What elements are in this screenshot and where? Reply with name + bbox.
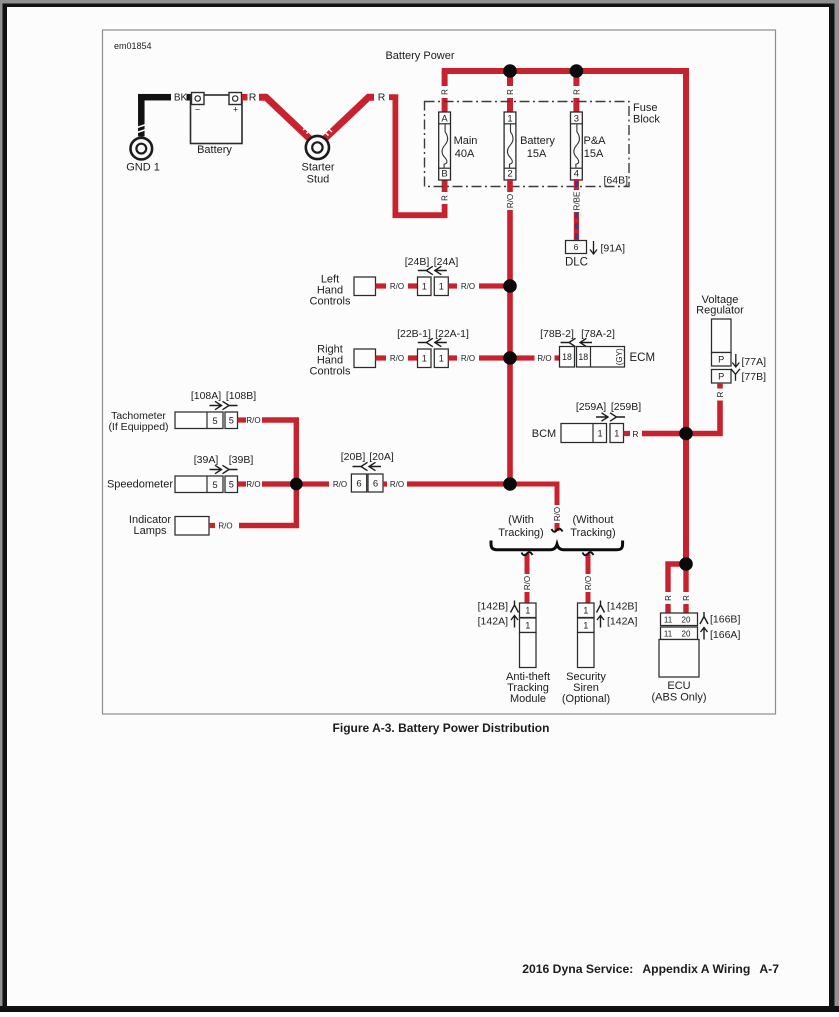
connector pair [108A] [108B] xyxy=(191,390,256,429)
svg-text:20: 20 xyxy=(682,630,691,639)
svg-text:Starter: Starter xyxy=(301,162,334,174)
wire R battery to starter stud xyxy=(242,92,313,139)
connector pair [78B-2] [78A-2] ECM xyxy=(540,328,655,367)
svg-text:R/O: R/O xyxy=(390,480,404,489)
BCM xyxy=(532,424,607,443)
svg-text:A: A xyxy=(441,113,448,124)
left hand controls xyxy=(310,274,376,308)
svg-text:Tracking): Tracking) xyxy=(498,527,543,539)
svg-text:1: 1 xyxy=(422,354,427,364)
svg-text:6: 6 xyxy=(356,478,361,489)
svg-text:20: 20 xyxy=(682,616,691,625)
svg-text:[22B-1]: [22B-1] xyxy=(397,328,431,340)
fuse F2 Battery 15A xyxy=(504,112,555,180)
svg-text:R: R xyxy=(378,92,386,104)
svg-text:R/O: R/O xyxy=(584,576,593,590)
junction speedometer column xyxy=(290,478,303,491)
wire R/O connector 20 to main junction xyxy=(383,479,510,489)
svg-text:R/O: R/O xyxy=(461,354,475,363)
svg-text:BCM: BCM xyxy=(532,428,556,440)
wire R BCM to junction xyxy=(624,429,687,439)
svg-text:1: 1 xyxy=(583,621,588,631)
connector [142B] anti-theft xyxy=(478,601,536,618)
svg-text:R: R xyxy=(440,195,449,201)
connector [142A] security siren xyxy=(578,616,638,633)
connector [142A] anti-theft xyxy=(478,616,536,633)
wire R/O indicator lamps up to junction xyxy=(209,484,296,531)
junction BCM voltage regulator xyxy=(679,427,693,441)
wire battery power bus xyxy=(439,68,689,113)
svg-text:R: R xyxy=(716,391,725,397)
node (Without Tracking) xyxy=(570,514,615,539)
svg-text:[259A]: [259A] xyxy=(576,401,606,413)
svg-text:[78B-2]: [78B-2] xyxy=(540,328,574,340)
svg-text:B: B xyxy=(441,169,447,180)
svg-text:4: 4 xyxy=(574,169,579,180)
connector [142B] security siren xyxy=(578,601,638,618)
anti-theft tracking module xyxy=(506,633,550,706)
svg-text:1: 1 xyxy=(525,621,530,631)
wire R/O LH controls to connector xyxy=(376,281,418,291)
security siren xyxy=(562,633,610,706)
connector [166B] ECU xyxy=(661,612,741,626)
svg-text:Battery Power: Battery Power xyxy=(385,50,454,62)
svg-text:3: 3 xyxy=(574,113,579,124)
svg-text:(With: (With xyxy=(508,514,534,526)
svg-text:6: 6 xyxy=(373,478,378,489)
drawing id em01854 xyxy=(114,41,152,51)
connector [91A] DLC xyxy=(565,241,625,269)
svg-text:[24B]: [24B] xyxy=(405,256,430,268)
fuse F1 Main 40A xyxy=(439,112,478,180)
right hand controls xyxy=(310,344,376,378)
svg-text:15A: 15A xyxy=(527,148,547,160)
wire R/O battery fuse main vertical xyxy=(505,179,516,484)
junction RH row xyxy=(503,351,517,365)
svg-text:+: + xyxy=(233,105,238,115)
svg-text:1: 1 xyxy=(583,606,588,616)
svg-text:R: R xyxy=(632,429,638,439)
svg-text:(Without: (Without xyxy=(573,514,614,526)
svg-text:5: 5 xyxy=(212,416,217,426)
svg-text:R/BE: R/BE xyxy=(572,192,581,211)
wire R/O tachometer to speedometer junction xyxy=(238,416,297,484)
svg-text:40A: 40A xyxy=(455,148,475,160)
svg-text:1: 1 xyxy=(439,282,444,292)
svg-text:Speedometer: Speedometer xyxy=(107,479,173,491)
svg-text:R/O: R/O xyxy=(246,480,260,489)
connector pair [39A] [39B] xyxy=(194,454,254,493)
svg-text:P: P xyxy=(718,372,724,382)
connector [166A] ECU xyxy=(661,627,741,641)
wire R ECU pin 20 xyxy=(681,567,692,613)
connector pair [259A] [259B] xyxy=(576,401,641,443)
svg-text:[22A-1]: [22A-1] xyxy=(435,328,469,340)
svg-text:1: 1 xyxy=(525,606,530,616)
wire R starter stud to main fuse xyxy=(323,92,451,216)
svg-text:R: R xyxy=(682,595,691,601)
svg-text:DLC: DLC xyxy=(565,257,588,269)
footer page label xyxy=(522,962,779,976)
connector [77B] xyxy=(712,369,767,383)
wire R/O anti-theft tracking module xyxy=(522,552,533,603)
fuse F3 P&A 15A xyxy=(571,112,607,180)
svg-text:(Optional): (Optional) xyxy=(562,693,610,705)
node (With Tracking) xyxy=(498,514,543,539)
svg-text:P&A: P&A xyxy=(583,135,606,147)
svg-text:Controls: Controls xyxy=(310,296,351,308)
junction main R/O line speedometer row xyxy=(503,477,517,491)
svg-text:1: 1 xyxy=(597,429,602,439)
svg-text:Controls: Controls xyxy=(310,366,351,378)
svg-text:5: 5 xyxy=(212,480,217,490)
svg-text:[77B]: [77B] xyxy=(742,371,767,383)
svg-text:R/O: R/O xyxy=(333,480,347,489)
junction LH row xyxy=(503,279,517,293)
battery xyxy=(191,93,243,157)
ECU module xyxy=(651,640,706,704)
svg-text:R/O: R/O xyxy=(506,194,515,208)
svg-text:(ABS Only): (ABS Only) xyxy=(651,692,706,704)
junction ECU feed xyxy=(679,557,693,571)
wire R/O junction to connector 20 xyxy=(296,479,351,489)
svg-text:[24A]: [24A] xyxy=(434,256,459,268)
svg-text:[20A]: [20A] xyxy=(369,451,394,463)
svg-text:5: 5 xyxy=(229,480,234,490)
junction bus-battery fuse xyxy=(503,64,517,78)
wire R voltage regulator to junction xyxy=(686,383,726,434)
svg-text:[142B]: [142B] xyxy=(478,601,508,613)
fuse block [64B] xyxy=(425,102,661,187)
svg-text:[166B]: [166B] xyxy=(710,614,740,626)
node Battery Power xyxy=(385,50,454,62)
figure caption xyxy=(333,721,550,735)
svg-text:R/O: R/O xyxy=(390,282,404,291)
svg-text:Block: Block xyxy=(633,114,660,126)
svg-text:R/O: R/O xyxy=(218,522,232,531)
svg-text:1: 1 xyxy=(422,282,427,292)
junction bus-P&A fuse xyxy=(570,64,584,78)
svg-text:Tracking): Tracking) xyxy=(570,527,615,539)
svg-text:Fuse: Fuse xyxy=(633,102,657,114)
svg-text:2: 2 xyxy=(507,169,512,180)
svg-text:[166A]: [166A] xyxy=(710,629,740,641)
connector pair [20B] [20A] xyxy=(341,451,394,492)
wire R right main vertical xyxy=(683,71,689,564)
svg-text:em01854: em01854 xyxy=(114,41,152,51)
svg-text:[108A]: [108A] xyxy=(191,390,221,402)
svg-text:[142B]: [142B] xyxy=(607,601,637,613)
svg-text:[142A]: [142A] xyxy=(478,616,508,628)
svg-text:11: 11 xyxy=(664,630,673,639)
svg-text:[77A]: [77A] xyxy=(742,356,767,368)
svg-text:1: 1 xyxy=(614,428,619,438)
svg-text:5: 5 xyxy=(229,416,234,426)
svg-text:Module: Module xyxy=(510,693,546,705)
svg-text:R/O: R/O xyxy=(553,507,562,521)
indicator lamps xyxy=(129,514,209,537)
wire R/O RH controls to connector xyxy=(376,353,418,363)
svg-text:15A: 15A xyxy=(584,148,604,160)
starter stud ring terminal xyxy=(301,136,334,186)
svg-text:R/O: R/O xyxy=(461,282,475,291)
svg-text:R: R xyxy=(664,595,673,601)
wire R/O security siren xyxy=(583,552,594,603)
svg-text:Main: Main xyxy=(454,135,478,147)
tachometer xyxy=(108,410,223,433)
svg-text:[142A]: [142A] xyxy=(607,616,637,628)
svg-text:6: 6 xyxy=(574,242,579,252)
connector pair [24B] [24A] xyxy=(405,256,459,296)
svg-text:[64B]: [64B] xyxy=(603,175,628,187)
ground ring terminal GND 1 xyxy=(126,138,160,174)
svg-text:[91A]: [91A] xyxy=(601,243,626,255)
svg-text:11: 11 xyxy=(664,616,673,625)
wire R/O junction to ECM xyxy=(510,353,560,363)
wire R ECU pin 11 xyxy=(663,564,687,613)
svg-text:1: 1 xyxy=(439,354,444,364)
wire R/O speedometer to junction xyxy=(238,480,297,489)
svg-text:[259B]: [259B] xyxy=(611,401,641,413)
svg-text:R/O: R/O xyxy=(390,354,404,363)
connector [77A] xyxy=(712,353,767,369)
svg-text:Battery: Battery xyxy=(520,135,555,147)
connector pair [22B-1] [22A-1] xyxy=(397,328,469,368)
svg-text:Stud: Stud xyxy=(307,174,330,186)
svg-text:Battery: Battery xyxy=(197,144,232,156)
svg-text:R: R xyxy=(249,92,257,104)
wire R/O connector to bus junction xyxy=(448,281,510,291)
svg-text:18: 18 xyxy=(578,352,588,362)
svg-text:P: P xyxy=(718,355,724,365)
svg-text:BK: BK xyxy=(174,93,188,104)
svg-text:R: R xyxy=(572,89,581,95)
svg-text:[39B]: [39B] xyxy=(229,454,254,466)
svg-text:[20B]: [20B] xyxy=(341,451,366,463)
svg-text:ECU: ECU xyxy=(667,680,690,692)
svg-text:Regulator: Regulator xyxy=(696,305,744,317)
wire R/O to tracking modules xyxy=(510,484,563,532)
svg-text:Lamps: Lamps xyxy=(133,525,167,537)
svg-text:18: 18 xyxy=(562,352,572,362)
svg-text:[39A]: [39A] xyxy=(194,454,219,466)
svg-text:GND 1: GND 1 xyxy=(126,162,160,174)
svg-text:−: − xyxy=(195,105,200,115)
svg-text:R/O: R/O xyxy=(523,576,532,590)
svg-text:R/O: R/O xyxy=(537,354,551,363)
svg-text:2016 Dyna Service: Appendix A: 2016 Dyna Service: Appendix A Wiring A-7 xyxy=(522,962,779,976)
speedometer xyxy=(107,476,223,493)
wire R/O connector to bus junction RH xyxy=(448,353,510,363)
svg-text:R: R xyxy=(440,89,449,95)
svg-text:(GY): (GY) xyxy=(615,348,624,365)
svg-text:1: 1 xyxy=(507,113,512,124)
svg-text:[108B]: [108B] xyxy=(226,390,256,402)
wire R/BE fuse P&A to DLC xyxy=(571,179,582,241)
svg-text:Figure A-3. Battery Power Dist: Figure A-3. Battery Power Distribution xyxy=(333,721,550,735)
svg-text:ECM: ECM xyxy=(630,352,656,364)
svg-text:R/O: R/O xyxy=(246,416,260,425)
wire BK ground to battery xyxy=(137,93,191,137)
brace tracking options xyxy=(491,541,623,550)
svg-text:(If Equipped): (If Equipped) xyxy=(108,421,168,433)
voltage regulator xyxy=(696,294,744,353)
svg-text:R: R xyxy=(506,89,515,95)
